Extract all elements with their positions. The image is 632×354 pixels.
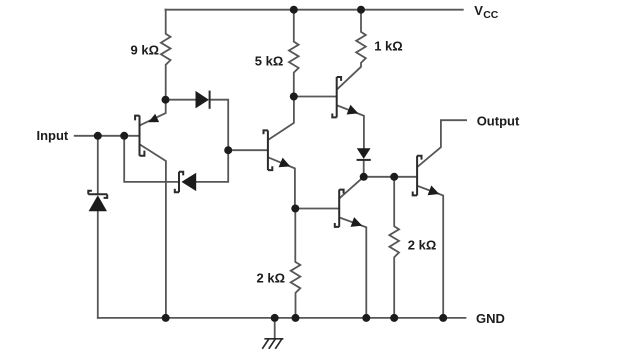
transistor Q1 emitter arrow (PNP, into bar): [148, 114, 159, 122]
svg-text:9 kΩ: 9 kΩ: [131, 43, 160, 58]
gnd node q1 collector: [162, 314, 170, 322]
node input 2: [120, 132, 128, 140]
wire Q2 base: [228, 149, 268, 151]
transistor Q5 emitter: [339, 218, 366, 318]
diode D4 (input clamp schottky): [88, 191, 107, 212]
ground symbol: [262, 339, 283, 349]
resistor R5 2k right: [389, 177, 399, 318]
transistor Q3 emitter: [337, 105, 364, 148]
transistor Q5 (lower middle): [335, 190, 344, 227]
svg-text:1 kΩ: 1 kΩ: [374, 39, 403, 54]
wire Q5 base: [295, 208, 339, 210]
gnd node Q5 emitter: [362, 314, 370, 322]
svg-text:V: V: [474, 3, 483, 18]
node Q2 base: [224, 146, 232, 154]
resistor R3 1k: [337, 10, 366, 90]
transistor Q2 collector: [268, 97, 294, 140]
wire D2 branch left: [124, 136, 179, 182]
wire node to D1: [166, 99, 196, 101]
resistor R2 5k: [289, 10, 299, 97]
node Q2 emitter: [291, 205, 299, 213]
svg-text:CC: CC: [483, 9, 499, 21]
VCC rail: [165, 9, 462, 11]
svg-text:2 kΩ: 2 kΩ: [257, 270, 286, 285]
transistor Q2 emitter: [268, 157, 295, 208]
gnd node 2k left: [292, 314, 300, 322]
transistor Q2 emitter arrow: [279, 158, 291, 168]
wire input clamp column: [97, 136, 99, 318]
transistor Q1 emitter: [140, 100, 166, 126]
transistor Q5 collector: [339, 177, 363, 199]
node 9k bottom: [162, 96, 170, 104]
node vcc-1k: [357, 6, 365, 14]
ground stub: [274, 318, 276, 339]
GND rail: [98, 317, 466, 319]
transistor Q1 (input PNP): [135, 116, 144, 156]
node vcc-5k: [290, 6, 298, 14]
diode D1 (to phase splitter base): [196, 91, 210, 109]
wire Q3 base: [294, 96, 337, 98]
node 5k bottom: [290, 93, 298, 101]
diode D3 (level shift): [357, 148, 371, 160]
gnd node Q6 emitter: [439, 314, 447, 322]
node B 2k top: [390, 173, 398, 181]
wire D3 cathode to node A: [363, 160, 365, 177]
resistor R4 2k left: [291, 209, 301, 318]
svg-text:2 kΩ: 2 kΩ: [408, 238, 437, 253]
node A diode bottom: [360, 173, 368, 181]
wire node A to Q6 base: [364, 176, 417, 178]
diode D2 (schottky, feedback to input): [175, 172, 196, 193]
transistor Q1 collector to GND: [140, 145, 166, 318]
transistor Q2 (phase splitter): [264, 130, 273, 170]
gnd node ground symbol: [271, 314, 279, 322]
transistor Q5 emitter arrow: [351, 217, 363, 227]
wire D1 cathode to Q2 base node: [210, 100, 229, 151]
svg-text:GND: GND: [476, 311, 505, 326]
transistor Q6 emitter to GND: [417, 186, 443, 318]
transistor Q3 emitter arrow: [347, 105, 359, 115]
node input 1: [94, 132, 102, 140]
wire input: [75, 135, 140, 137]
svg-text:Input: Input: [37, 128, 69, 143]
svg-text:5 kΩ: 5 kΩ: [255, 53, 283, 68]
resistor R1 9k: [161, 10, 171, 100]
transistor Q6 emitter arrow: [428, 186, 440, 196]
gnd node 2k right: [390, 314, 398, 322]
transistor Q3 (darlington top): [332, 77, 341, 117]
transistor Q6 collector to output: [417, 120, 466, 167]
wire node down to D2: [196, 150, 228, 182]
transistor Q6 (output): [413, 156, 422, 196]
svg-text:Output: Output: [477, 113, 520, 128]
